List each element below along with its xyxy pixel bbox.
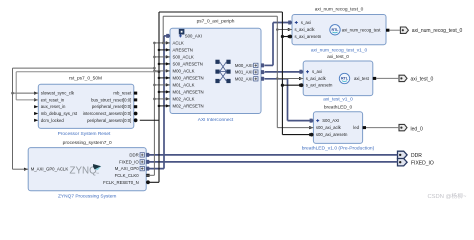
- svg-text:axi_test: axi_test: [354, 76, 370, 81]
- svg-text:CSDN @杨柳~: CSDN @杨柳~: [428, 192, 468, 200]
- svg-text:S00_ARESETN: S00_ARESETN: [173, 61, 203, 66]
- svg-text:DDR: DDR: [129, 152, 138, 157]
- svg-text:breathLED_0: breathLED_0: [324, 104, 353, 110]
- svg-text:led_0: led_0: [411, 126, 423, 132]
- svg-text:aux_reset_in: aux_reset_in: [41, 104, 66, 109]
- svg-text:s_axi_aclk: s_axi_aclk: [306, 76, 327, 81]
- svg-text:ACLK: ACLK: [173, 40, 184, 45]
- svg-text:M02_ACLK: M02_ACLK: [173, 96, 195, 101]
- svg-text:axi_test_0: axi_test_0: [411, 76, 434, 82]
- svg-text:M01_AXI: M01_AXI: [235, 70, 253, 75]
- svg-text:bus_struct_reset[0:0]: bus_struct_reset[0:0]: [91, 97, 131, 102]
- svg-text:M_AXI_GP0_ACLK: M_AXI_GP0_ACLK: [31, 167, 69, 172]
- svg-text:s00_axi_aresetn: s00_axi_aresetn: [316, 132, 348, 137]
- svg-text:dcm_locked: dcm_locked: [41, 118, 65, 123]
- svg-text:M01_ARESETN: M01_ARESETN: [173, 89, 204, 94]
- svg-text:processing_system7_0: processing_system7_0: [63, 140, 112, 146]
- svg-text:ZYNQ7 Processing System: ZYNQ7 Processing System: [58, 193, 116, 199]
- svg-text:led: led: [353, 125, 359, 130]
- svg-text:ps7_0_axi_periph: ps7_0_axi_periph: [197, 19, 235, 25]
- svg-text:slowest_sync_clk: slowest_sync_clk: [41, 91, 75, 96]
- svg-text:ZYNQ: ZYNQ: [70, 166, 98, 177]
- svg-text:s_axi_aresetn: s_axi_aresetn: [295, 34, 322, 39]
- svg-text:axi_test_v1_0: axi_test_v1_0: [323, 97, 353, 103]
- svg-text:TM: TM: [96, 173, 99, 175]
- svg-text:breathLED_v1.0 (Pre-Production: breathLED_v1.0 (Pre-Production): [302, 145, 375, 151]
- svg-text:RTL: RTL: [332, 28, 340, 32]
- svg-text:AXI Interconnect: AXI Interconnect: [198, 117, 234, 123]
- svg-text:s_axi_aclk: s_axi_aclk: [295, 27, 316, 32]
- svg-text:S00_AXI: S00_AXI: [322, 118, 339, 123]
- svg-text:s_axi: s_axi: [301, 20, 311, 25]
- svg-text:S00_AXI: S00_AXI: [185, 33, 202, 38]
- svg-text:FCLK_RESET0_N: FCLK_RESET0_N: [103, 180, 139, 185]
- svg-text:s_axi: s_axi: [312, 69, 322, 74]
- svg-text:Processor System Reset: Processor System Reset: [58, 131, 111, 137]
- svg-text:M00_ARESETN: M00_ARESETN: [173, 75, 204, 80]
- svg-text:s00_axi_aclk: s00_axi_aclk: [316, 125, 342, 130]
- svg-text:rst_ps7_0_50M: rst_ps7_0_50M: [69, 76, 102, 82]
- svg-text:RTL: RTL: [341, 77, 349, 81]
- svg-text:axi_num_recog_test_0: axi_num_recog_test_0: [412, 28, 463, 34]
- svg-text:ARESETN: ARESETN: [173, 47, 193, 52]
- svg-text:peripheral_aresetn[0:0]: peripheral_aresetn[0:0]: [87, 118, 131, 123]
- svg-text:FCLK_CLK0: FCLK_CLK0: [115, 173, 140, 178]
- svg-text:FIXED_IO: FIXED_IO: [119, 159, 139, 164]
- svg-text:FIXED_IO: FIXED_IO: [411, 160, 434, 166]
- svg-text:peripheral_reset[0:0]: peripheral_reset[0:0]: [92, 104, 131, 109]
- svg-text:axi_num_recog_test: axi_num_recog_test: [342, 28, 382, 33]
- svg-text:M00_AXI: M00_AXI: [235, 63, 253, 68]
- svg-text:axi_num_recog_test_0: axi_num_recog_test_0: [315, 6, 364, 12]
- svg-text:M02_AXI: M02_AXI: [235, 76, 253, 81]
- svg-text:ext_reset_in: ext_reset_in: [41, 97, 65, 102]
- svg-text:M02_ARESETN: M02_ARESETN: [173, 103, 204, 108]
- svg-text:axi_num_recog_test_v1_0: axi_num_recog_test_v1_0: [311, 47, 368, 53]
- svg-text:M01_ACLK: M01_ACLK: [173, 82, 195, 87]
- svg-text:interconnect_aresetn[0:0]: interconnect_aresetn[0:0]: [83, 111, 132, 116]
- svg-text:s_axi_aresetn: s_axi_aresetn: [306, 83, 333, 88]
- svg-text:axi_test_0: axi_test_0: [327, 54, 349, 60]
- svg-text:M_AXI_GP0: M_AXI_GP0: [115, 166, 139, 171]
- svg-text:DDR: DDR: [411, 153, 422, 159]
- svg-text:mb_debug_sys_rst: mb_debug_sys_rst: [41, 111, 78, 116]
- svg-text:M00_ACLK: M00_ACLK: [173, 68, 195, 73]
- svg-text:mb_reset: mb_reset: [113, 91, 132, 96]
- svg-text:S00_ACLK: S00_ACLK: [173, 54, 194, 59]
